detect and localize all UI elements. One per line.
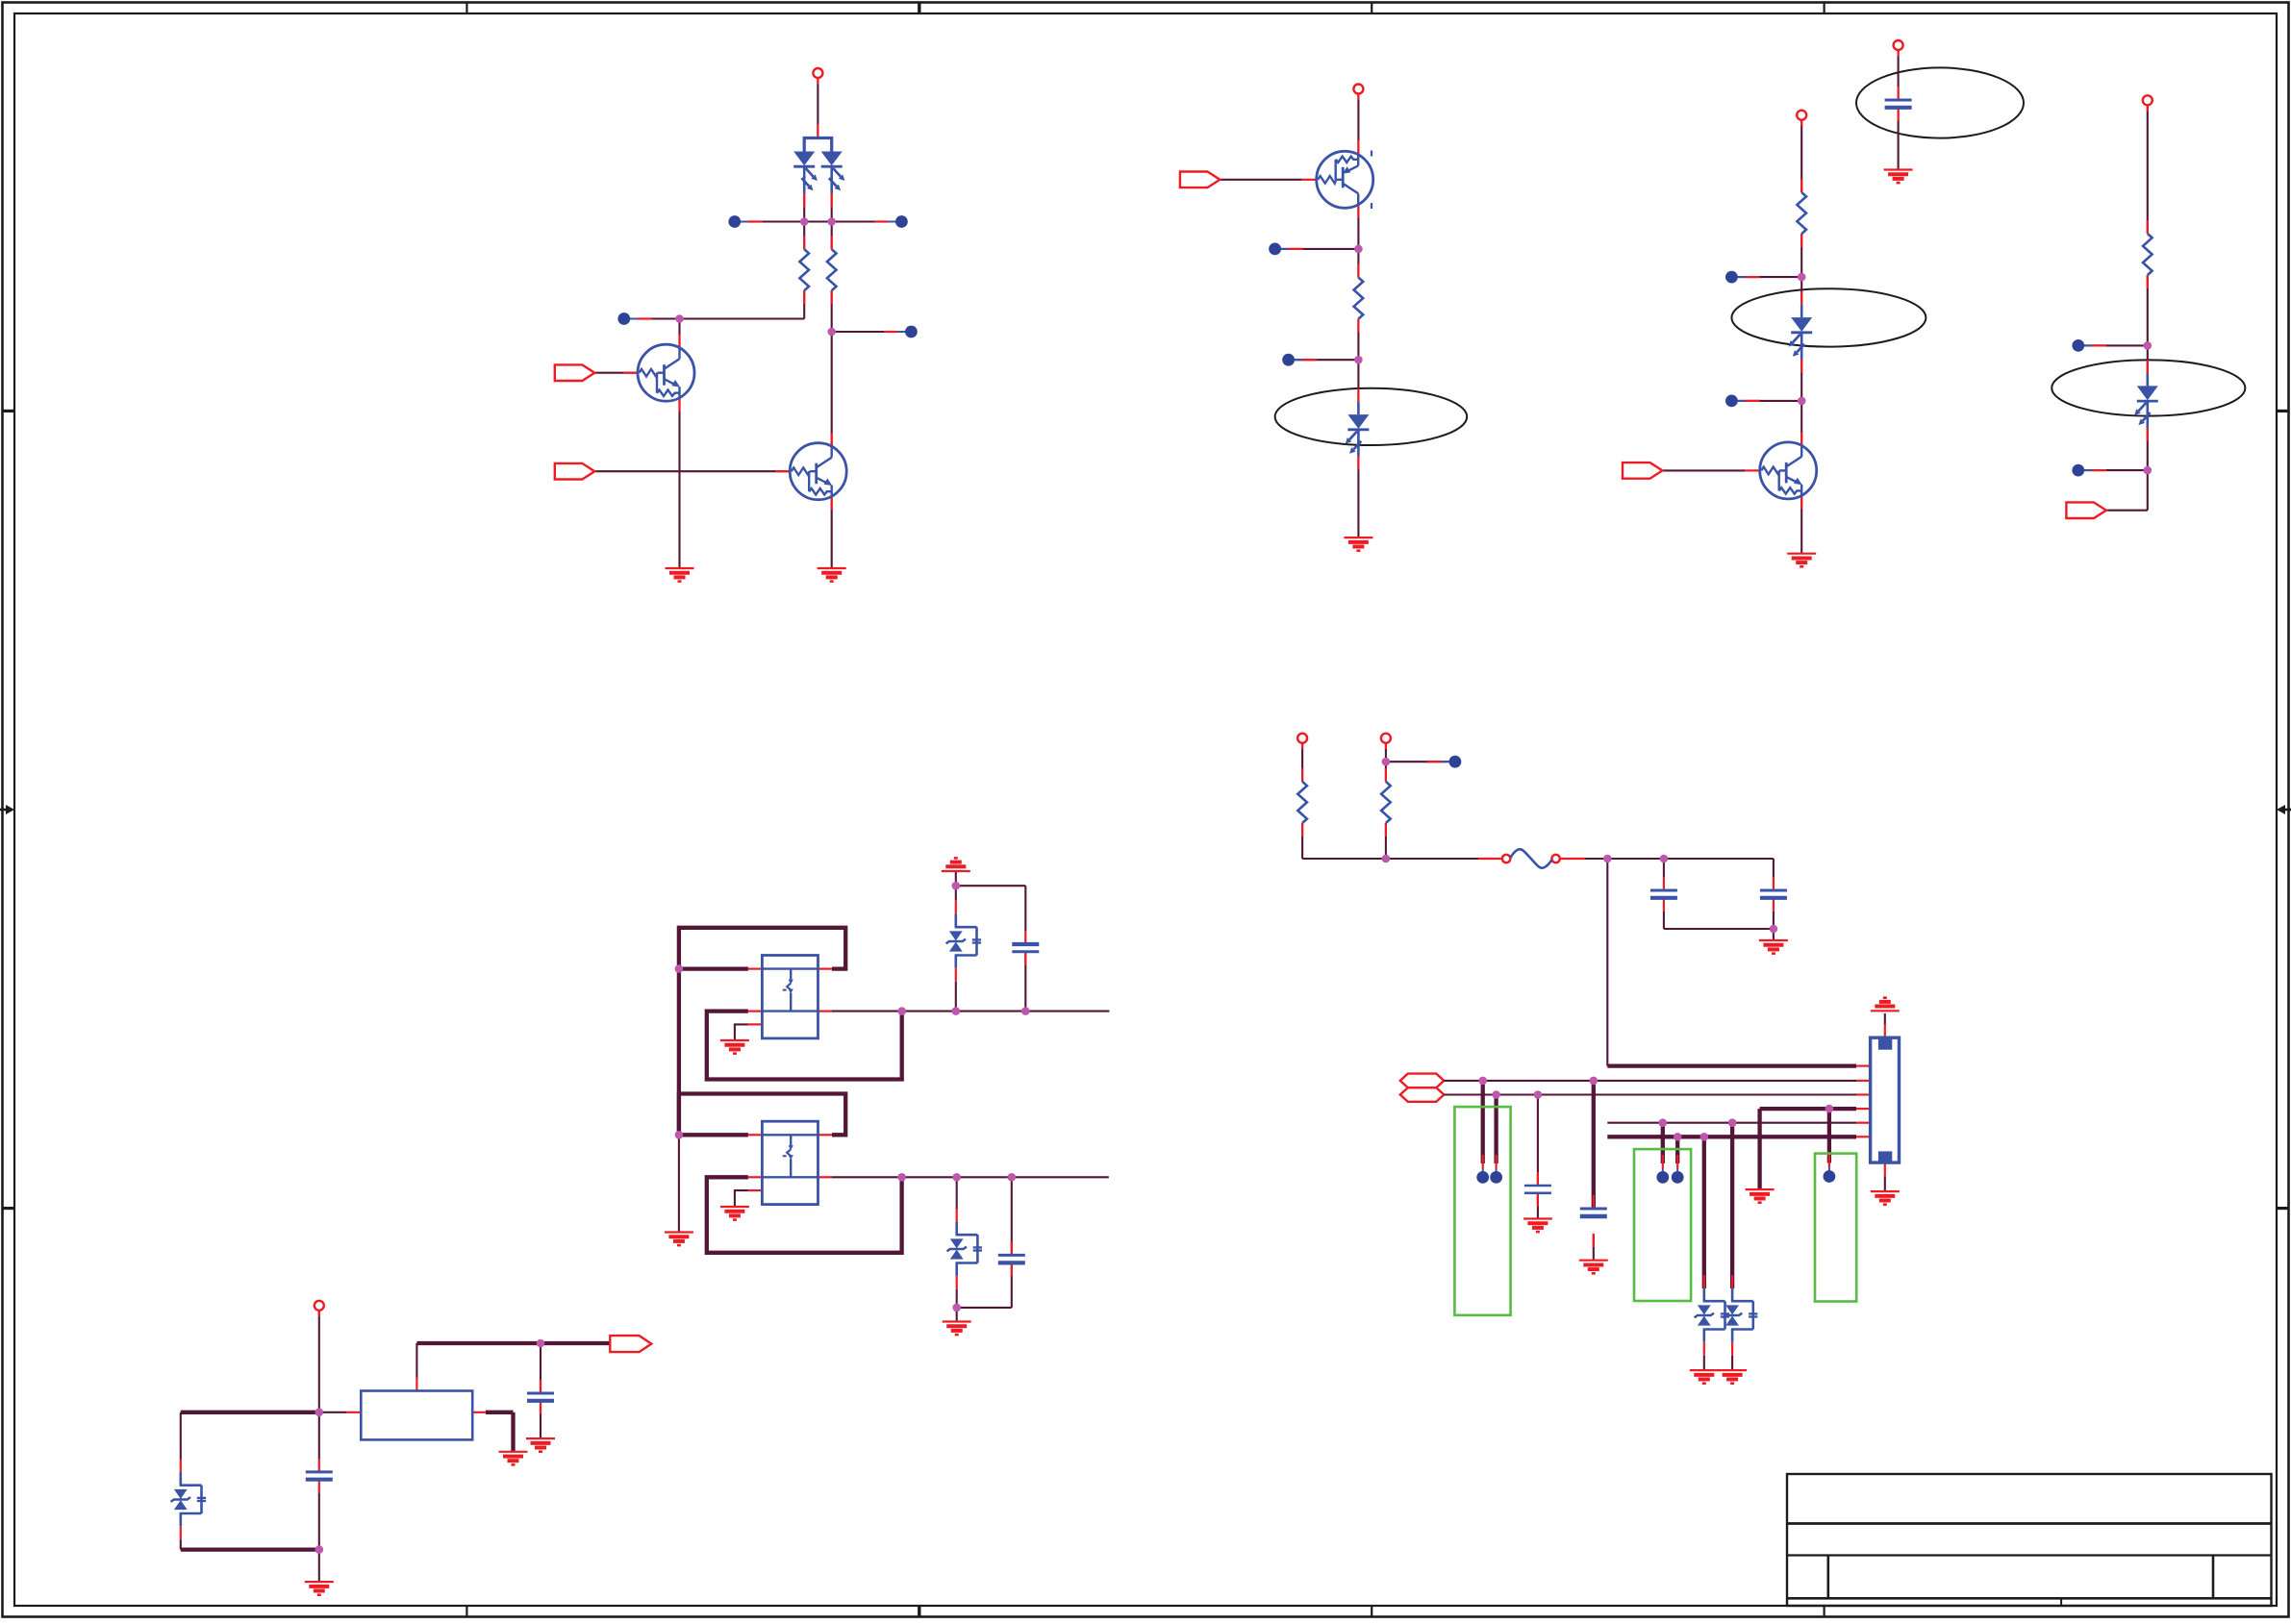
wire port P3 to Q3 base bbox=[1220, 179, 1301, 181]
wire VCC2 to Q3 emitter bbox=[1357, 94, 1359, 155]
wire node G10 right to capacitor C7 bottom bbox=[957, 1307, 1012, 1309]
capacitor C4 bbox=[1524, 1185, 1551, 1187]
shield area box 2 bbox=[1634, 1149, 1691, 1301]
capacitor C3 bbox=[1580, 1208, 1607, 1211]
test point stub TP2 bbox=[888, 221, 901, 223]
junction node A4 bbox=[827, 328, 836, 337]
test point stub TP10 bbox=[2078, 469, 2092, 471]
wire W3 harness to connector pin 3 bbox=[1444, 1093, 1856, 1095]
pin stubs resistor R2 bbox=[831, 236, 833, 249]
wire node F6b down to TVS Z1 bbox=[1702, 1137, 1706, 1288]
Q3 pin marker ticks bbox=[1371, 151, 1372, 157]
left border centre arrow bbox=[0, 805, 14, 814]
test point TP6 bbox=[1282, 354, 1295, 366]
wire node E3 to ground bbox=[1773, 929, 1775, 940]
test point TP1 bbox=[728, 215, 741, 228]
pin stubs regulator U1 bbox=[346, 1412, 361, 1413]
wire VCC stem to dual LED anode bracket bbox=[817, 78, 818, 138]
right border centre arrow bbox=[2277, 805, 2291, 814]
pin stubs transistor Q4 bbox=[1800, 432, 1802, 445]
pin stub connector J1 bottom bbox=[1884, 1162, 1886, 1176]
wire node E2 to capacitor C1 branch bbox=[1664, 858, 1774, 860]
pin stubs TVS Z4 bbox=[956, 1209, 958, 1222]
TVS Z5 bbox=[171, 1473, 207, 1527]
wire VIN power to node H1 bbox=[318, 1311, 320, 1412]
power pin VIN bbox=[315, 1301, 324, 1311]
power pin VCC2 bbox=[1353, 85, 1363, 94]
wire sensor S2 top loop bbox=[679, 1094, 845, 1136]
wire sensor S1 bottom-right pin to node G2 bbox=[832, 1011, 902, 1012]
wire capacitor C7 bottom elbow bbox=[1011, 1262, 1013, 1308]
junction node A1 bbox=[800, 217, 809, 226]
pin stubs resistor R7 bbox=[1385, 768, 1387, 782]
wire node to resistor R2 bbox=[831, 222, 833, 250]
title block row line 3 bbox=[1787, 1597, 2272, 1600]
resistor R5 bbox=[2143, 234, 2153, 275]
junction node G4 bbox=[1021, 1007, 1030, 1015]
wire node H1 to regulator U1 input bbox=[319, 1412, 346, 1413]
title block bottom row divider bbox=[2060, 1598, 2062, 1606]
ground GND-A1 bbox=[666, 568, 694, 582]
wire LED D3 cathode to node C2 bbox=[1800, 360, 1802, 401]
TVS Z3 bbox=[946, 914, 982, 968]
wire node F5a down to test point TP15 bbox=[1661, 1123, 1665, 1163]
transistor Q2 bbox=[790, 443, 846, 500]
wire LED D4 cathode to node D2 bbox=[2147, 428, 2149, 470]
junction node E2b bbox=[1660, 855, 1669, 863]
wire regulator U1 ground pin bbox=[486, 1411, 514, 1414]
test point TP4 bbox=[905, 326, 918, 338]
output port P6 bbox=[610, 1336, 651, 1352]
ground GND-A2 bbox=[818, 568, 846, 582]
pin stubs fuse F1 bbox=[1478, 858, 1502, 860]
pin stubs capacitor C6 bbox=[1024, 931, 1026, 944]
wire Q2 emitter to ground bbox=[831, 496, 833, 568]
title block row line 2 bbox=[1787, 1554, 2272, 1556]
wire node F4 down to test point TP14 bbox=[1827, 1109, 1831, 1162]
LED D2 bbox=[1346, 402, 1370, 457]
highlight ellipse around capacitor C5 bbox=[1856, 67, 2024, 137]
wire node C2 to Q4 collector bbox=[1800, 401, 1802, 446]
wire node to resistor R1 bbox=[803, 222, 805, 250]
wire node B1 to test point TP5 bbox=[1281, 248, 1358, 250]
ground GND-E bbox=[1759, 940, 1788, 954]
power pin VCC5 bbox=[2143, 95, 2153, 105]
wire node C1 to test point TP7 bbox=[1738, 276, 1801, 278]
ground GND-H1 bbox=[305, 1582, 334, 1595]
wire port P4 to Q4 base bbox=[1663, 469, 1746, 471]
dual LED anode bracket bbox=[804, 138, 832, 152]
wire collector node to test point TP3 bbox=[630, 317, 680, 319]
wire node C2 to test point TP8 bbox=[1738, 400, 1801, 402]
junction node D1 bbox=[2144, 341, 2153, 350]
wire node C1 to LED D3 bbox=[1800, 277, 1802, 305]
bottom rail to node H2 bbox=[181, 1547, 319, 1551]
pin stub connector J1 pin 1 bbox=[1856, 1064, 1871, 1066]
wire LED D2 cathode to ground bbox=[1357, 457, 1359, 538]
wire node H1 to capacitor C8 bbox=[318, 1412, 320, 1459]
wire sensor S1 ground pin bbox=[735, 1024, 748, 1039]
junction node H1 bbox=[315, 1409, 324, 1417]
port P2 bbox=[555, 463, 595, 480]
wire node G3 to capacitor node G4 bbox=[956, 1011, 1026, 1012]
junction node G5 bbox=[952, 882, 961, 890]
pin stubs capacitor C3 bbox=[1593, 1195, 1595, 1209]
wire resistor R1 to collector node of Q1 bbox=[803, 290, 805, 318]
sensor S1 bbox=[762, 956, 818, 1038]
pin stubs capacitor C9 bbox=[540, 1380, 541, 1393]
top border zone tick 3 bbox=[1371, 3, 1372, 14]
junction node D2 bbox=[2144, 466, 2153, 475]
TVS Z4 bbox=[947, 1222, 983, 1276]
TVS Z2 bbox=[1723, 1288, 1758, 1342]
junction node F4 bbox=[1825, 1105, 1834, 1113]
pin stubs transistor Q3 bbox=[1357, 140, 1359, 155]
wire node H2 to ground bbox=[318, 1550, 320, 1583]
top border zone tick 2 bbox=[918, 3, 920, 14]
resistor R3 bbox=[1354, 278, 1364, 319]
wire TVS Z5 bottom to bottom rail bbox=[180, 1539, 182, 1549]
test point stub TP6 bbox=[1289, 359, 1302, 361]
test point stub TP11 bbox=[1442, 761, 1455, 762]
wire capacitor C8 to node H2 bbox=[318, 1493, 320, 1550]
wire node G6 down to ground bbox=[678, 1135, 680, 1232]
wire node E2 down to connector feed bbox=[1606, 859, 1608, 1066]
LED D3 bbox=[1789, 305, 1813, 360]
pin stubs dual LED D1 bbox=[817, 124, 818, 138]
wire TVS Z2 to ground bbox=[1731, 1356, 1733, 1370]
junction node E2 bbox=[1603, 855, 1612, 863]
resistor R7 bbox=[1381, 782, 1391, 823]
ground below node G6 bbox=[665, 1233, 693, 1246]
shield area box 1 bbox=[1454, 1107, 1510, 1315]
wire sensor S2 bottom loop bbox=[707, 1177, 902, 1253]
LED D1b bbox=[821, 139, 845, 194]
wire node H3 down to capacitor C9 bbox=[540, 1343, 541, 1393]
port P4 bbox=[1623, 462, 1663, 479]
pin stubs transistor Q1 bbox=[678, 335, 680, 348]
LED D1a bbox=[793, 139, 818, 194]
wire node G4 to stub end bbox=[1025, 1011, 1109, 1012]
test point TP10 bbox=[2072, 464, 2084, 477]
bottom border zone tick 3 bbox=[1371, 1606, 1372, 1617]
junction node E1b on bus bbox=[1382, 855, 1391, 863]
test point TP12 bbox=[1476, 1171, 1489, 1184]
capacitor C9 bbox=[527, 1392, 554, 1395]
wire node D2 down and left to port P5 bbox=[2147, 470, 2149, 511]
pin stubs resistor R4 bbox=[1800, 179, 1802, 192]
wire bus elbow down to capacitor C2 bbox=[1773, 859, 1775, 877]
resistor R2 bbox=[827, 249, 837, 290]
junction node C1 bbox=[1798, 273, 1806, 282]
wire node F3b down to capacitor C4 bbox=[1537, 1095, 1539, 1187]
wire VCC5 down to resistor R5 bbox=[2147, 106, 2149, 234]
resistor R4 bbox=[1797, 192, 1806, 234]
capacitor C5 bbox=[1885, 99, 1912, 102]
junction node G2 bbox=[897, 1007, 906, 1015]
wire node G8 to capacitor node G9 bbox=[957, 1176, 1012, 1178]
title block column divider left bbox=[1827, 1556, 1830, 1599]
wire Q1 emitter to ground bbox=[678, 398, 680, 568]
wire collector node down to Q2 collector bbox=[831, 332, 833, 446]
wire VBAT1 to resistor R6 bbox=[1301, 743, 1303, 782]
wire capacitor C3 to ground bbox=[1593, 1234, 1595, 1261]
wire sensor S2 bottom-right pin to node G7 bbox=[832, 1176, 902, 1178]
pin stubs LED D2 bbox=[1357, 388, 1359, 402]
wire sensor S2 ground pin bbox=[735, 1190, 748, 1206]
pin stubs resistor R5 bbox=[2147, 220, 2149, 234]
wire between cathode nodes bbox=[804, 220, 832, 222]
wire VCC4 to capacitor C5 bbox=[1898, 50, 1900, 100]
pin stubs resistor R6 bbox=[1301, 768, 1303, 782]
wire resistor R7 to bus bbox=[1385, 823, 1387, 859]
wire TVS Z3 top feed bbox=[955, 886, 957, 900]
wire TVS Z1 to ground bbox=[1703, 1356, 1705, 1370]
wire node G10 down to ground bbox=[956, 1308, 958, 1322]
pin stubs capacitor C8 bbox=[318, 1459, 320, 1472]
junction node G1 bbox=[675, 964, 684, 973]
ground for W4 branch bbox=[1746, 1189, 1775, 1203]
bottom border zone tick 1 bbox=[466, 1606, 467, 1617]
ground GND-B bbox=[1344, 537, 1372, 551]
capacitor C1 bbox=[1650, 889, 1677, 892]
junction node F6a bbox=[1674, 1133, 1682, 1141]
TVS Z1 bbox=[1695, 1288, 1730, 1342]
harness port HP2 bbox=[1400, 1087, 1445, 1102]
pin stubs capacitor C1 bbox=[1663, 877, 1665, 890]
pin stubs TVS Z5 bbox=[180, 1460, 182, 1473]
junction node G9 bbox=[1008, 1173, 1017, 1182]
test point stub TP12 bbox=[1482, 1155, 1484, 1168]
wire dual LED cathode 2 to node row bbox=[831, 182, 833, 222]
pin stubs TVS Z2 bbox=[1731, 1275, 1733, 1288]
wire capacitor C5 to ground bbox=[1898, 108, 1900, 170]
ground GND-C5 bbox=[1884, 170, 1913, 184]
ground below connector J1 bbox=[1871, 1191, 1900, 1205]
test point TP7 bbox=[1725, 271, 1738, 284]
ground below TVS Z4 bbox=[943, 1322, 971, 1336]
test point stub TP3 bbox=[624, 318, 638, 320]
pin stubs connector J1 left pins bbox=[1856, 1080, 1871, 1082]
wire resistor R5 to node D1 bbox=[2147, 275, 2149, 345]
junction node G7 bbox=[897, 1173, 906, 1182]
capacitor C2 bbox=[1760, 889, 1787, 892]
wire node E1 to resistor R7 bbox=[1385, 762, 1387, 782]
bottom border zone tick 4 bbox=[1823, 1606, 1825, 1617]
wire VBAT2 to node E1 bbox=[1385, 743, 1387, 762]
wire VCC3 down to resistor R4 bbox=[1800, 120, 1802, 192]
port P1 bbox=[555, 364, 595, 381]
pin stubs resistor R3 bbox=[1357, 264, 1359, 278]
power pin VBAT2 bbox=[1381, 734, 1391, 743]
wire connector J1 top pin to ground bbox=[1884, 1013, 1886, 1024]
wire node G6 to sensor S2 top-left pin bbox=[679, 1133, 748, 1137]
test point TP13 bbox=[1490, 1171, 1502, 1184]
ground GND-Z1 bbox=[1690, 1370, 1719, 1384]
wire regulator U1 output up and right bbox=[415, 1343, 417, 1378]
pin stubs transistor Q2 bbox=[831, 433, 833, 446]
wire capacitor C1 bottom to join bbox=[1663, 912, 1665, 929]
test point TP5 bbox=[1269, 243, 1281, 256]
ground GND-H3 (C9) bbox=[526, 1438, 555, 1452]
wire node E1 to test point TP11 bbox=[1386, 761, 1448, 762]
ground GND-H2 (U1) bbox=[499, 1452, 528, 1465]
junction node F2a bbox=[1478, 1077, 1487, 1086]
wire capacitor C9 to ground bbox=[540, 1401, 541, 1438]
wire node D2 to test point TP10 bbox=[2084, 469, 2148, 471]
wire W5 stub to connector pin 5 bbox=[1607, 1122, 1856, 1124]
transistor Q4 bbox=[1760, 442, 1817, 499]
title block row line 1 bbox=[1787, 1522, 2272, 1525]
highlight ellipse around LED D4 bbox=[2052, 360, 2245, 415]
pin stubs LED D4 bbox=[2147, 360, 2149, 373]
junction node B1 bbox=[1354, 245, 1363, 254]
pin stubs sensor S2 bbox=[748, 1134, 763, 1136]
junction node E3 bbox=[1770, 925, 1778, 934]
power pin VBAT1 bbox=[1297, 734, 1307, 743]
test point stub TP9 bbox=[2078, 344, 2092, 346]
title block outline bbox=[1787, 1474, 2272, 1606]
wire capacitor C4 to ground bbox=[1537, 1193, 1539, 1219]
LED D4 bbox=[2134, 373, 2158, 428]
wire W2 harness to connector pin 2 bbox=[1444, 1080, 1856, 1082]
wire node F5b down to TVS Z2 bbox=[1730, 1123, 1734, 1288]
junction node G8 bbox=[952, 1173, 961, 1182]
pin stubs resistor R1 bbox=[803, 236, 805, 249]
test point TP3 bbox=[617, 312, 630, 325]
test point TP9 bbox=[2072, 339, 2084, 352]
pin stubs capacitor C2 bbox=[1773, 877, 1775, 890]
wire port P1 to Q1 base bbox=[594, 372, 638, 374]
junction node A2 bbox=[827, 217, 836, 226]
junction node G10 bbox=[952, 1304, 961, 1312]
highlight ellipse around LED D2 bbox=[1275, 388, 1468, 445]
power bus to fuse F1 bbox=[1302, 858, 1502, 860]
wire node F6a down to test point TP16 bbox=[1675, 1137, 1679, 1163]
connector feed wire W1 bbox=[1607, 1063, 1856, 1067]
junction node B2 bbox=[1354, 356, 1363, 364]
shield area box 3 bbox=[1815, 1154, 1856, 1302]
test point TP15 bbox=[1656, 1171, 1669, 1184]
transistor Q3 (PNP) bbox=[1317, 151, 1373, 208]
wire TVS Z4 top from node G8 bbox=[956, 1177, 958, 1209]
power pin VCC3 bbox=[1797, 111, 1806, 120]
right border quarter tick bbox=[2277, 410, 2289, 412]
pin stubs TVS Z3 bbox=[955, 900, 957, 914]
wire node G1 to sensor S1 top-left pin bbox=[679, 966, 748, 970]
highlight ellipse around LED D3 bbox=[1731, 288, 1926, 346]
wire resistor R3 to node B2 bbox=[1357, 319, 1359, 361]
test point stub TP13 bbox=[1495, 1155, 1497, 1168]
test point stub TP8 bbox=[1731, 400, 1745, 402]
junction node E1 bbox=[1382, 758, 1391, 766]
wire capacitor C7 from node G9 bbox=[1011, 1177, 1013, 1255]
junction node A3 bbox=[675, 314, 684, 323]
wire node F3a down to test point TP13 bbox=[1494, 1095, 1498, 1164]
wire port P2 to Q2 base bbox=[594, 470, 790, 472]
wire Q3 collector to node B1 bbox=[1357, 205, 1359, 249]
wire resistor R6 to bus corner bbox=[1301, 823, 1303, 859]
ground GND-C bbox=[1787, 554, 1816, 567]
left border three-quarter tick bbox=[3, 1207, 15, 1210]
sensor S2 bbox=[762, 1121, 818, 1204]
resistor R1 bbox=[799, 249, 809, 290]
junction node F6b bbox=[1700, 1133, 1709, 1141]
regulator U1 bbox=[361, 1391, 472, 1440]
junction node G3 bbox=[952, 1007, 961, 1015]
port P3 bbox=[1180, 172, 1221, 188]
pin stubs capacitor C4 bbox=[1537, 1172, 1539, 1186]
power pin VCC1 bbox=[813, 68, 822, 78]
pin stubs capacitor C7 bbox=[1011, 1241, 1013, 1255]
wire node B1 to resistor R3 bbox=[1357, 249, 1359, 278]
wire node F2a down to test point TP12 bbox=[1481, 1081, 1485, 1163]
test point TP8 bbox=[1725, 395, 1738, 408]
wire resistor R4 to node C1 bbox=[1800, 234, 1802, 277]
test point TP14 bbox=[1824, 1170, 1836, 1183]
wire capacitor C6 down to node G4 bbox=[1024, 886, 1026, 931]
wire node H1 left to TVS Z5 bbox=[181, 1411, 319, 1414]
junction node G6 bbox=[675, 1131, 684, 1139]
wire dual LED cathode 1 to node row bbox=[803, 182, 805, 222]
inverted ground above TVS Z3 bbox=[942, 858, 970, 871]
right border three-quarter tick bbox=[2277, 1207, 2289, 1210]
pin stubs TVS Z1 bbox=[1703, 1275, 1705, 1288]
wire sensor S1 bottom loop bbox=[707, 1012, 902, 1080]
wire node G7 to TVS node G8 bbox=[902, 1176, 957, 1178]
wire node G9 to stub end bbox=[1012, 1176, 1109, 1178]
wire sensor S1 top loop bbox=[679, 928, 845, 969]
wire node B2 to test point TP6 bbox=[1295, 359, 1358, 361]
wire resistor R2 to collector node of Q2 bbox=[831, 290, 833, 332]
ground below capacitor C4 bbox=[1523, 1219, 1552, 1233]
junction node F5b bbox=[1728, 1118, 1737, 1127]
test point stub TP14 bbox=[1828, 1154, 1830, 1167]
test point stub TP16 bbox=[1676, 1155, 1678, 1168]
test point TP16 bbox=[1672, 1171, 1684, 1184]
wire node D1 to test point TP9 bbox=[2084, 344, 2148, 346]
test point stub TP7 bbox=[1731, 276, 1745, 278]
wire Q4 emitter to ground bbox=[1800, 495, 1802, 553]
harness port HP1 bbox=[1400, 1074, 1445, 1088]
junction node H2 bbox=[315, 1545, 324, 1554]
wire TVS Z3 bottom to node G3 bbox=[955, 982, 957, 1012]
wire TVS Z4 bottom to node G10 bbox=[956, 1289, 958, 1308]
ground sensor S1 pin bbox=[720, 1040, 749, 1054]
test point stub TP15 bbox=[1662, 1155, 1664, 1168]
capacitor C8 bbox=[306, 1470, 333, 1473]
wire node G1 down to sensor S2 node bbox=[677, 969, 681, 1136]
junction node F3a bbox=[1492, 1090, 1500, 1099]
bottom border zone tick 2 bbox=[918, 1606, 920, 1617]
fuse F1 bbox=[1502, 849, 1560, 867]
wire node G5 right to capacitor C6 branch bbox=[956, 885, 1026, 887]
test point TP2 bbox=[895, 215, 908, 228]
test point stub TP4 bbox=[897, 331, 911, 333]
wire W4 ground branch to connector pin 4 bbox=[1760, 1107, 1856, 1111]
wire node G2 to TVS node G3 bbox=[902, 1011, 956, 1012]
wire node F2b down to capacitor C3 bbox=[1592, 1081, 1596, 1209]
wire connector J1 bottom pin to ground bbox=[1884, 1177, 1886, 1192]
capacitor C7 bbox=[998, 1254, 1025, 1257]
wire node row left to test point TP1 bbox=[742, 220, 804, 222]
wire W4 elbow down to ground bbox=[1757, 1109, 1761, 1189]
inverted ground above connector J1 bbox=[1871, 998, 1900, 1012]
pin stubs LED D3 bbox=[1800, 291, 1802, 305]
junction node H3 bbox=[537, 1339, 545, 1348]
resistor R6 bbox=[1297, 782, 1307, 823]
wire capacitor C1 top bbox=[1663, 859, 1665, 877]
